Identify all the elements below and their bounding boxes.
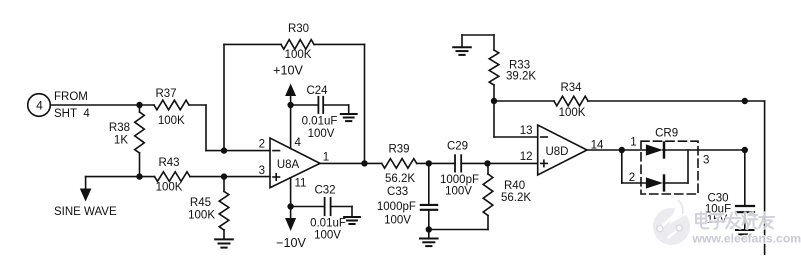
pin label 14 bbox=[591, 140, 604, 152]
node: C33 ground junction bbox=[426, 226, 432, 232]
svg-text:C33: C33 bbox=[387, 186, 408, 198]
op-amp U8A bbox=[270, 138, 320, 188]
svg-text:SHT 4: SHT 4 bbox=[54, 108, 90, 120]
node: output bus junction bbox=[742, 147, 748, 153]
pin label 4 bbox=[295, 137, 302, 149]
wire: CR9 bottom branch bbox=[622, 150, 647, 183]
resistor R33 39.2K bbox=[489, 35, 536, 101]
svg-text:100K: 100K bbox=[559, 107, 586, 119]
resistor R37 100K bbox=[154, 88, 189, 127]
label SINE WAVE bbox=[54, 206, 117, 218]
ground below R45 bbox=[215, 239, 233, 247]
svg-text:11: 11 bbox=[295, 178, 307, 190]
ground at C32 bbox=[344, 207, 360, 225]
svg-text:SINE WAVE: SINE WAVE bbox=[54, 206, 117, 218]
node: input junction bbox=[136, 102, 142, 108]
svg-text:12: 12 bbox=[520, 151, 533, 163]
svg-text:R37: R37 bbox=[155, 88, 176, 100]
wire: top right corner down bbox=[745, 101, 765, 255]
node: R40 junction bbox=[484, 160, 490, 166]
capacitor C33 1000pF bbox=[377, 163, 437, 229]
svg-text:100K: 100K bbox=[156, 182, 183, 194]
pin label 3 (CR9) bbox=[703, 155, 709, 167]
capacitor C29 1000pF bbox=[440, 140, 479, 197]
pin label 3 bbox=[259, 165, 265, 177]
label CR9 bbox=[655, 127, 678, 139]
svg-text:FROM: FROM bbox=[54, 91, 88, 103]
wire: U8A output row bbox=[320, 162, 538, 164]
node: pin 11 / C32 junction bbox=[287, 203, 293, 209]
-10V supply arrow bbox=[276, 178, 306, 250]
resistor R40 56.2K bbox=[429, 163, 532, 229]
resistor R38 1K bbox=[109, 105, 144, 177]
svg-text:56.2K: 56.2K bbox=[385, 173, 415, 185]
svg-text:4: 4 bbox=[36, 98, 43, 112]
svg-text:3: 3 bbox=[259, 165, 265, 177]
svg-text:C29: C29 bbox=[447, 140, 468, 152]
pin label 2 (CR9) bbox=[629, 172, 635, 184]
svg-text:R43: R43 bbox=[158, 157, 179, 169]
svg-text:R38: R38 bbox=[109, 122, 130, 134]
wire: input row to R37 bbox=[50, 104, 154, 106]
diode CR9 bottom (pin 2) bbox=[646, 176, 664, 191]
label FROM bbox=[54, 91, 88, 103]
wire: CR9 bottom to common bbox=[664, 150, 688, 183]
wire: R37 to U8A pin 2 bbox=[189, 105, 270, 151]
node: R45 junction bbox=[221, 173, 227, 179]
svg-text:1: 1 bbox=[630, 137, 636, 149]
svg-text:1K: 1K bbox=[114, 135, 128, 147]
svg-text:R40: R40 bbox=[504, 180, 525, 192]
svg-text:0.01uF: 0.01uF bbox=[302, 116, 338, 128]
svg-text:R34: R34 bbox=[560, 82, 582, 94]
svg-text:100V: 100V bbox=[308, 128, 335, 140]
svg-text:C24: C24 bbox=[306, 85, 328, 97]
svg-text:3: 3 bbox=[703, 155, 709, 167]
wire: bus down to C30 bbox=[744, 150, 746, 206]
watermark text www.elecfans.com bbox=[692, 232, 801, 246]
pin label 11 bbox=[295, 178, 307, 190]
wire: U8D output to CR9 bbox=[587, 149, 647, 151]
svg-text:100K: 100K bbox=[285, 49, 312, 61]
wire: row 3 (non-inverting input) bbox=[86, 176, 270, 178]
sine wave tap arrow bbox=[80, 177, 92, 202]
resistor R34 100K bbox=[494, 82, 745, 119]
svg-text:100V: 100V bbox=[445, 186, 472, 198]
watermark text (CJK, hand-drawn) bbox=[696, 212, 774, 229]
svg-text:13: 13 bbox=[520, 125, 533, 137]
svg-text:−10V: −10V bbox=[276, 236, 306, 250]
wire: CR9 top output bbox=[663, 149, 745, 151]
svg-text:100K: 100K bbox=[158, 115, 185, 127]
label SHT 4 bbox=[54, 108, 90, 120]
pin label 13 bbox=[520, 125, 533, 137]
op-amp U8D bbox=[538, 125, 587, 175]
dashed package outline CR9 bbox=[641, 141, 698, 194]
ground at R33 top bbox=[453, 35, 494, 55]
node: sine-wave junction bbox=[136, 173, 142, 179]
svg-text:U8A: U8A bbox=[277, 159, 300, 171]
node: top right junction bbox=[742, 98, 748, 104]
ground below C33 bbox=[420, 230, 438, 247]
svg-text:2: 2 bbox=[259, 139, 265, 151]
wire: to U8D pin 13 bbox=[494, 101, 538, 137]
connector: input from sheet 4 bbox=[28, 94, 51, 117]
svg-text:CR9: CR9 bbox=[655, 127, 678, 139]
pin label 1 (CR9) bbox=[630, 137, 636, 149]
pin label 1 bbox=[323, 152, 329, 164]
svg-text:R30: R30 bbox=[288, 23, 309, 35]
capacitor C24 0.01uF bbox=[291, 85, 349, 140]
capacitor C30 10uF bbox=[705, 193, 754, 230]
svg-text:U8D: U8D bbox=[545, 146, 568, 158]
svg-text:R39: R39 bbox=[388, 143, 409, 155]
svg-text:100K: 100K bbox=[188, 210, 215, 222]
svg-text:56.2K: 56.2K bbox=[501, 192, 531, 204]
svg-text:39.2K: 39.2K bbox=[506, 71, 536, 83]
pin label 2 bbox=[259, 139, 265, 151]
node: R33/R34/pin13 junction bbox=[491, 98, 497, 104]
svg-text:1000pF: 1000pF bbox=[377, 201, 416, 213]
svg-text:1000pF: 1000pF bbox=[440, 174, 479, 186]
watermark logo bbox=[653, 201, 690, 246]
+10V supply arrow bbox=[273, 64, 303, 149]
svg-text:R45: R45 bbox=[190, 197, 211, 209]
node: pin 4 / C24 junction bbox=[287, 102, 293, 108]
wire: feedback loop bbox=[224, 44, 365, 163]
svg-text:4: 4 bbox=[295, 137, 302, 149]
capacitor C32 0.01uF bbox=[291, 185, 352, 242]
node: CR9 input junction bbox=[619, 147, 625, 153]
resistor R45 100K bbox=[188, 177, 229, 240]
svg-text:100V: 100V bbox=[314, 230, 341, 242]
svg-text:www.elecfans.com: www.elecfans.com bbox=[692, 232, 801, 246]
svg-text:+10V: +10V bbox=[273, 64, 303, 78]
node: feedback junction at pin 2 bbox=[221, 147, 227, 153]
svg-text:100V: 100V bbox=[384, 215, 411, 227]
svg-text:C32: C32 bbox=[314, 185, 335, 197]
node: C33 junction bbox=[426, 160, 432, 166]
svg-text:1: 1 bbox=[323, 152, 329, 164]
resistor R30 100K bbox=[281, 23, 314, 61]
resistor R39 56.2K bbox=[382, 143, 417, 185]
node: feedback/output junction bbox=[361, 160, 367, 166]
diode CR9 top (pin 1) bbox=[646, 143, 664, 158]
ground below C30 bbox=[736, 230, 754, 239]
svg-text:0.01uF: 0.01uF bbox=[310, 218, 346, 230]
resistor R43 100K bbox=[155, 157, 191, 194]
pin label 12 bbox=[520, 151, 533, 163]
ground at C24 bbox=[341, 105, 357, 121]
